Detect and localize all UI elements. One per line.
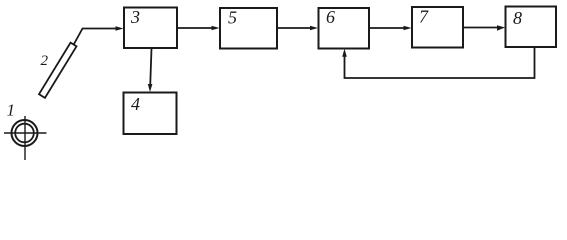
feedback wire block 8 to block 6 xyxy=(345,48,535,79)
wire block 5 to block 6 xyxy=(278,27,312,29)
block 6 xyxy=(319,8,370,49)
svg-text:7: 7 xyxy=(419,7,429,27)
block 4 xyxy=(124,93,177,135)
arrowhead into block 6 bottom xyxy=(342,49,347,57)
wire probe to block 3 xyxy=(74,29,117,45)
wire block 3 to block 5 xyxy=(178,27,213,29)
svg-text:5: 5 xyxy=(228,8,237,28)
svg-text:6: 6 xyxy=(326,7,335,27)
arrowhead into block 8 xyxy=(497,25,505,31)
svg-text:8: 8 xyxy=(513,8,522,28)
arrowhead into block 4 xyxy=(148,84,153,92)
arrowhead into block 5 xyxy=(212,26,220,31)
arrowhead into block 6 xyxy=(310,26,318,31)
block 8 xyxy=(506,7,557,48)
transducer probe 2 xyxy=(39,43,77,98)
svg-text:2: 2 xyxy=(41,53,49,69)
block 3 xyxy=(124,8,177,49)
arrowhead into block 3 xyxy=(116,26,124,31)
svg-text:3: 3 xyxy=(130,7,140,27)
weld spot symbol 1 (concentric circles with crosshair) xyxy=(4,116,47,160)
block 7 xyxy=(412,7,463,48)
wire block 6 to block 7 xyxy=(370,27,406,29)
wire block 3 down to block 4 xyxy=(150,49,151,87)
svg-text:1: 1 xyxy=(7,101,16,120)
wire block 7 to block 8 xyxy=(464,27,499,29)
arrowhead into block 7 xyxy=(404,26,412,31)
block 5 xyxy=(220,8,277,49)
svg-text:4: 4 xyxy=(131,94,140,114)
